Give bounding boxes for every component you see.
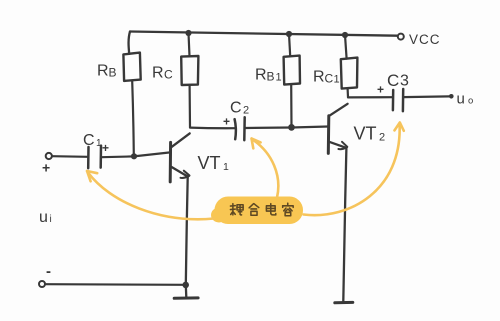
svg-text:+: + bbox=[377, 83, 384, 97]
svg-text:2: 2 bbox=[379, 132, 385, 144]
svg-text:B: B bbox=[267, 70, 275, 84]
annotation text 耦合电容 (drawn strokes) bbox=[230, 203, 293, 216]
yellow arrow to C3 bbox=[304, 125, 400, 216]
wire: RC top lead bbox=[189, 33, 190, 56]
junction dot on rail (RC1) bbox=[342, 32, 348, 38]
svg-text:C: C bbox=[164, 68, 173, 82]
svg-text:R: R bbox=[97, 63, 109, 80]
wire: VT2 emitter down bbox=[343, 148, 346, 301]
wire: VCC top rail bbox=[130, 32, 398, 36]
svg-text:i: i bbox=[50, 214, 52, 225]
wire: VT2 collector to C3 bbox=[348, 96, 393, 98]
terminal: input - bbox=[39, 281, 45, 287]
svg-text:C: C bbox=[230, 100, 242, 117]
wire: ground stub bbox=[185, 285, 188, 297]
wire: C1 to VT1 base bbox=[102, 152, 171, 157]
耦 bbox=[230, 204, 243, 215]
svg-text:R: R bbox=[152, 65, 164, 82]
svg-text:B: B bbox=[109, 66, 117, 80]
svg-text:+: + bbox=[42, 160, 50, 176]
svg-text:3: 3 bbox=[400, 73, 409, 90]
svg-text:o: o bbox=[468, 96, 473, 107]
output dot bbox=[449, 94, 454, 99]
terminal VCC bbox=[398, 34, 404, 40]
wire: VT1 emitter down bbox=[186, 178, 188, 285]
svg-text:1: 1 bbox=[223, 161, 229, 173]
svg-text:1: 1 bbox=[276, 72, 282, 84]
容 bbox=[283, 203, 294, 216]
svg-text:R: R bbox=[313, 69, 325, 86]
wire: bottom return bbox=[45, 283, 185, 286]
resistor RB1 bbox=[284, 56, 300, 85]
transistor VT1 bbox=[169, 142, 172, 182]
svg-text:VT: VT bbox=[198, 153, 221, 173]
capacitor C2 bbox=[235, 119, 236, 139]
svg-text:C: C bbox=[325, 72, 334, 86]
wire: VT1 collector node to C2 bbox=[190, 126, 236, 129]
yellow arrow to C2 bbox=[253, 140, 279, 198]
junction node B bbox=[288, 124, 295, 131]
annotation blob 耦合电容 bbox=[211, 197, 303, 225]
wire: input to C1 bbox=[52, 155, 88, 158]
capacitor C1 bbox=[87, 147, 90, 168]
合 bbox=[249, 204, 259, 216]
wire: RB1 bottom lead bbox=[290, 85, 292, 128]
svg-text:1: 1 bbox=[334, 74, 340, 86]
capacitor C3 bbox=[392, 90, 395, 110]
transistor VT2 bbox=[327, 116, 331, 154]
svg-text:VT: VT bbox=[354, 124, 377, 144]
wire: RC1 top lead bbox=[345, 35, 347, 59]
svg-text:-: - bbox=[46, 263, 51, 280]
wire: RB bottom lead bbox=[132, 81, 134, 156]
svg-text:+: + bbox=[102, 141, 109, 155]
svg-text:u: u bbox=[457, 91, 465, 108]
junction dot on rail (RC) bbox=[185, 30, 191, 36]
wire: C3 to output bbox=[403, 95, 449, 98]
ground (left) bbox=[174, 296, 198, 299]
junction: ground node bbox=[182, 282, 189, 289]
wire: C2 to VT2 base bbox=[245, 127, 328, 129]
电 bbox=[266, 204, 275, 215]
svg-text:VCC: VCC bbox=[409, 32, 441, 47]
resistor RC bbox=[181, 56, 198, 85]
svg-text:u: u bbox=[39, 209, 48, 226]
terminal: input + bbox=[46, 153, 52, 159]
resistor RC1 bbox=[341, 58, 358, 89]
svg-text:C: C bbox=[387, 71, 399, 90]
wire: RB top lead bbox=[129, 32, 130, 54]
wire: RC bottom lead bbox=[189, 85, 192, 127]
svg-text:C: C bbox=[83, 132, 95, 149]
resistor RB bbox=[123, 53, 140, 81]
ground (right) bbox=[335, 301, 353, 304]
wire: RC1 bottom lead bbox=[347, 89, 350, 98]
svg-text:+: + bbox=[223, 115, 230, 129]
junction node A bbox=[131, 153, 137, 159]
wire: RB1 top lead bbox=[289, 34, 290, 56]
svg-text:R: R bbox=[255, 67, 267, 84]
yellow arrow to C1 bbox=[88, 173, 214, 220]
junction dot on rail (RB1) bbox=[286, 31, 292, 37]
svg-text:2: 2 bbox=[243, 105, 249, 117]
